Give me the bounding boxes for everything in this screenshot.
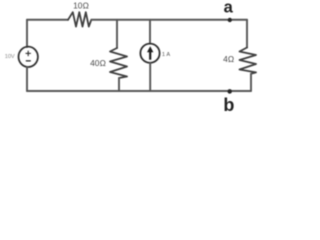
wire right branch lower (250, 74, 252, 91)
resistor R3 4Ω zigzag (240, 48, 257, 74)
svg-text:40Ω: 40Ω (90, 58, 106, 68)
wire current source branch top lead (149, 20, 151, 44)
wire 40-ohm branch top lead (116, 20, 118, 48)
wire current source branch bottom lead (149, 63, 151, 91)
voltage source plus sign (26, 51, 31, 56)
wire 40-ohm branch bottom lead (118, 78, 120, 91)
resistor R1 10Ω zigzag (68, 12, 91, 26)
current source I1 circle (140, 44, 159, 63)
voltage source minus sign (26, 60, 30, 62)
node b junction dot (227, 89, 232, 94)
svg-text:4Ω: 4Ω (223, 54, 235, 64)
wire left branch lower (26, 67, 28, 91)
wire top-right segment (91, 19, 247, 21)
svg-text:b: b (223, 95, 234, 112)
svg-text:10Ω: 10Ω (73, 0, 89, 10)
wire right branch upper (246, 20, 248, 48)
resistor R2 40Ω zigzag (110, 48, 127, 78)
voltage source V1 circle (19, 47, 38, 67)
wire top-left segment (27, 19, 68, 21)
svg-text:a: a (224, 0, 234, 17)
svg-text:1 A: 1 A (162, 52, 170, 58)
svg-text:10V: 10V (5, 54, 15, 60)
wire left branch upper (26, 20, 28, 47)
node a junction dot (228, 18, 232, 22)
current source arrow (147, 46, 153, 60)
wire bottom (27, 90, 251, 92)
